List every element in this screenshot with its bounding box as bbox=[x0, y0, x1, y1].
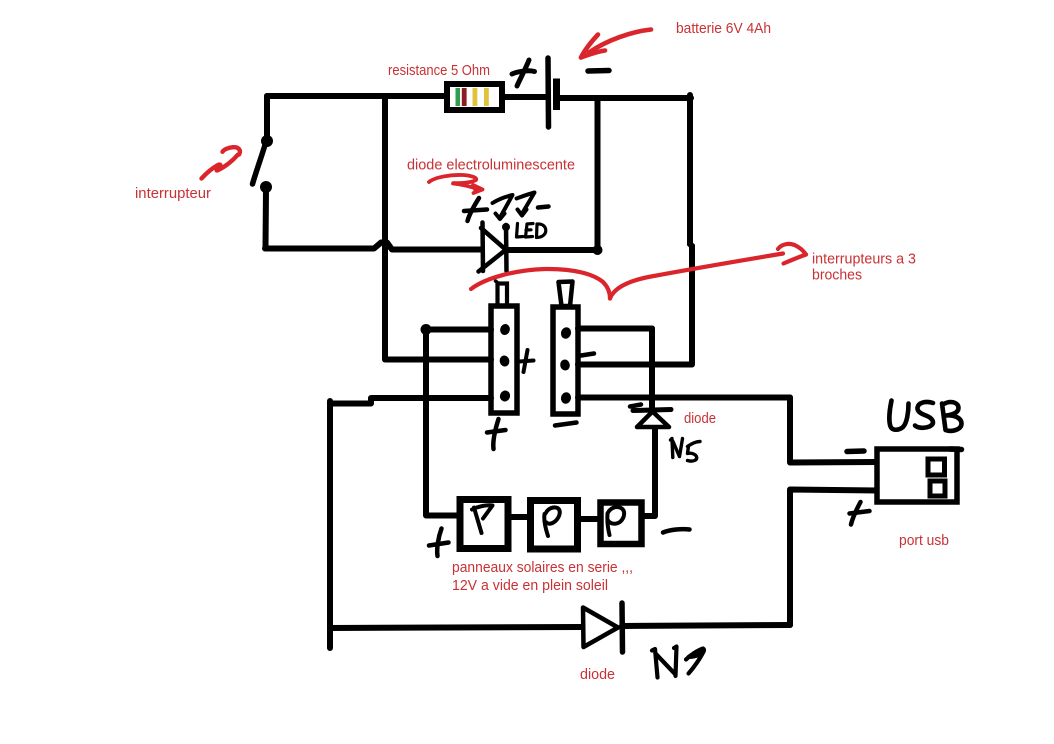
wire top rail left (switch to resistor) bbox=[267, 93, 447, 99]
panel P3 letter bbox=[607, 507, 624, 535]
wire P2-P3 bbox=[578, 516, 600, 522]
switch S2 lever bbox=[559, 282, 573, 307]
switch S1 lower plus label bbox=[487, 419, 506, 449]
switch S1 pin dots bbox=[498, 323, 511, 403]
label N5 (lower, handwritten) bbox=[652, 647, 704, 678]
switch S2 pin dots bbox=[559, 326, 572, 405]
svg-text:interrupteurs a 3: interrupteurs a 3 bbox=[812, 251, 916, 268]
node junction LED/vertical bbox=[593, 245, 603, 255]
svg-text:panneaux solaires en serie ,,,: panneaux solaires en serie ,,, bbox=[452, 559, 633, 576]
solar panel P2 bbox=[531, 501, 578, 550]
wire left rail lower bbox=[263, 190, 270, 247]
wire S2 top pin to corner x652 bbox=[578, 326, 652, 332]
LED handwritten text bbox=[517, 224, 546, 238]
USB minus label bbox=[847, 448, 864, 454]
battery minus label (handwritten) bbox=[588, 68, 609, 74]
label N5 (upper, handwritten) bbox=[671, 439, 701, 462]
wire S2 bottom pin to x790 bbox=[578, 395, 790, 401]
wire LED rail left (with hop over vertical) bbox=[265, 243, 481, 250]
wire vertical branch x385 (top rail to middle pin) bbox=[382, 96, 388, 359]
svg-text:12V a vide en plein soleil: 12V a vide en plein soleil bbox=[452, 577, 608, 594]
svg-text:port usb: port usb bbox=[899, 532, 949, 549]
LED plus label bbox=[464, 198, 487, 221]
svg-text:diode: diode bbox=[580, 666, 615, 683]
diode D3 (bottom) bbox=[583, 603, 623, 652]
panels plus label bbox=[429, 529, 449, 557]
battery plus label (handwritten) bbox=[512, 60, 535, 86]
svg-text:resistance 5 Ohm: resistance 5 Ohm bbox=[388, 62, 490, 79]
wire diode D2 to panels bbox=[643, 428, 655, 516]
wire vertical branch x598 (top rail to LED) bbox=[595, 98, 601, 248]
wire bottom rail right bbox=[622, 625, 790, 626]
switch S2 body (3-pin) bbox=[553, 307, 578, 414]
switch S1 lever bbox=[498, 284, 508, 307]
USB port connector bbox=[877, 449, 962, 502]
wire vertical x790 lower + USB plus wire bbox=[790, 490, 878, 626]
wire vertical x652 down to diode bbox=[649, 329, 655, 408]
battery B1 plates bbox=[548, 58, 557, 127]
LED minus label bbox=[538, 207, 549, 208]
solar panel P1 bbox=[460, 500, 508, 549]
wire battery to right corner bbox=[557, 95, 691, 101]
svg-text:diode: diode bbox=[684, 410, 716, 427]
interrupteur lever bbox=[253, 145, 266, 184]
USB plus label bbox=[850, 502, 870, 525]
wire bottom rail left bbox=[330, 627, 581, 628]
solar panel P3 bbox=[601, 503, 642, 545]
svg-text:interrupteur: interrupteur bbox=[135, 185, 211, 202]
resistor 5 Ohm body bbox=[447, 84, 502, 110]
red scribble arrow (LED pointer) bbox=[429, 175, 483, 193]
red arrow to battery bbox=[581, 30, 651, 58]
label USB (handwritten) bbox=[889, 401, 961, 431]
interrupteur contact dots bbox=[261, 135, 273, 147]
node junction x426 bbox=[421, 324, 432, 335]
LED light arrows bbox=[493, 193, 535, 220]
wire vertical x426 down to panels bbox=[426, 331, 459, 516]
node blob at USB plus wire end bbox=[874, 486, 883, 495]
svg-text:broches: broches bbox=[812, 267, 862, 284]
panels minus label bbox=[663, 529, 690, 532]
wire left rail upper + switch contacts bbox=[264, 96, 270, 140]
red curve (switches pointer) bbox=[471, 244, 806, 299]
diode D2 (N5) bbox=[630, 405, 671, 428]
svg-text:batterie 6V 4Ah: batterie 6V 4Ah bbox=[676, 20, 771, 37]
red arrow (interrupteur pointer) bbox=[202, 147, 240, 178]
wire S1 top pin to junction bbox=[427, 327, 491, 333]
LED D1 bbox=[479, 223, 507, 272]
wire S2 middle pin from right rail bbox=[578, 362, 692, 368]
wire S1 middle pin from x385 bbox=[385, 357, 491, 363]
wire P1-P2 bbox=[508, 514, 528, 520]
wire S1 bottom pin to left drop bbox=[330, 398, 491, 404]
switch S2 lower minus label bbox=[555, 423, 577, 426]
svg-text:diode electroluminescente: diode electroluminescente bbox=[407, 157, 575, 174]
switch S1 body (3-pin) bbox=[491, 306, 517, 413]
panel P1 letter bbox=[472, 505, 493, 533]
wire vertical x330 down to bottom rail bbox=[327, 401, 333, 648]
switch S2 minus label bbox=[581, 354, 594, 356]
panel P2 letter bbox=[544, 507, 559, 536]
switch S1 plus label bbox=[519, 350, 534, 372]
wire resistor to battery bbox=[502, 94, 546, 100]
wire right rail (battery minus down) bbox=[690, 95, 692, 364]
wire vertical x790 upper (to USB minus) bbox=[790, 398, 877, 463]
wire LED rail right segment bbox=[506, 247, 597, 253]
